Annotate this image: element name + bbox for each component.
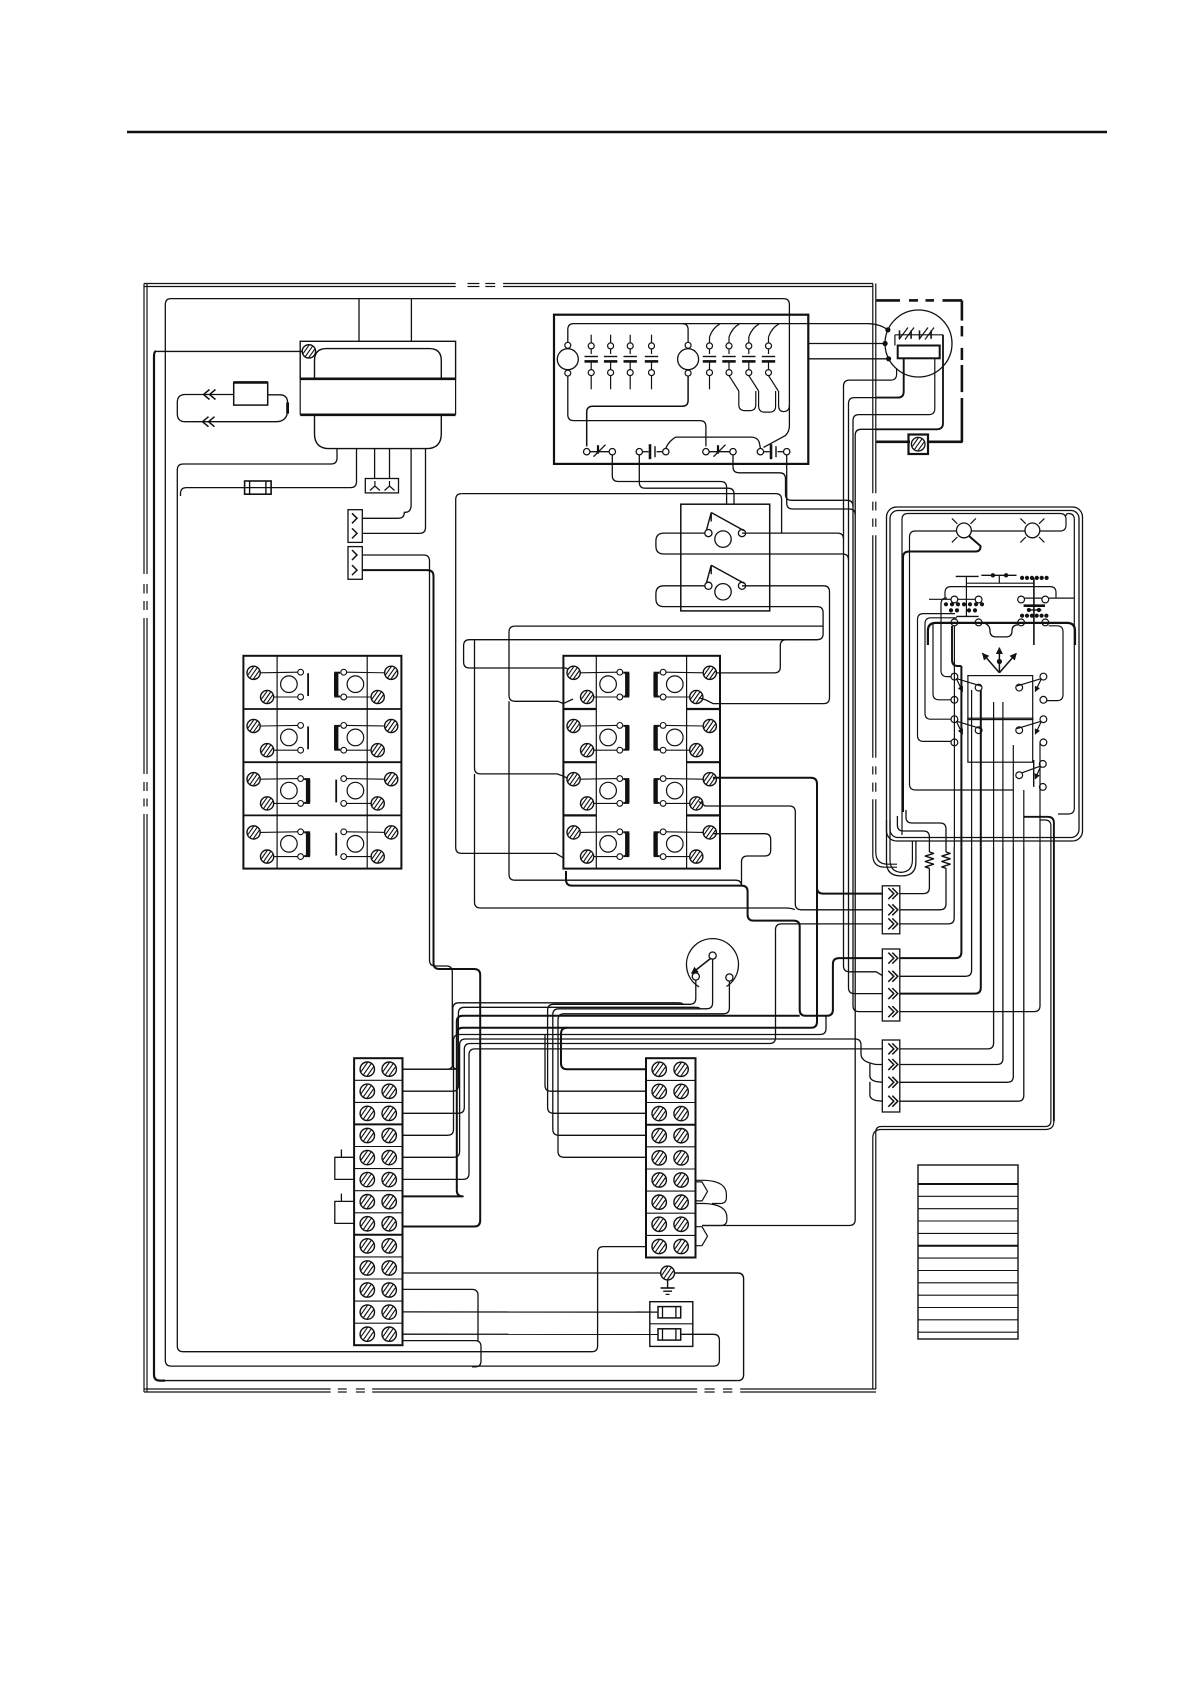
lamp L2: [1025, 523, 1040, 538]
wire relay box to compressor 3: [808, 358, 888, 360]
transformer secondary winding: [315, 415, 442, 449]
compressor feed wire 6 to overload: [876, 358, 935, 414]
rotary selector switch: [686, 939, 738, 987]
CN-C east wires rising into controller: [900, 847, 994, 1049]
connector CN2: [348, 547, 362, 580]
compressor feed wire 4: [876, 368, 897, 380]
wire CN2 pin1 down-jog to thick drop: [362, 555, 458, 1069]
connector block CN-B: [882, 949, 900, 1021]
vertical drops inside controller: [953, 626, 955, 847]
TB1 jumper bracket rows5-6: [335, 1157, 354, 1179]
cable inner line up: [1040, 820, 1051, 1121]
rotary contact R: [726, 974, 733, 981]
wire relay box to compressor 2: [808, 343, 885, 345]
relay block RB1 (left, spare): [243, 656, 401, 869]
lamp wire: [916, 530, 1061, 532]
thick bus at lower terminal row: [928, 623, 1075, 645]
transformer frame ground screw: [302, 345, 315, 358]
wire drop into relay box: [783, 299, 789, 315]
mode switch row2: [951, 716, 958, 723]
relay K2 contacts: [709, 337, 711, 343]
fuse F1: [245, 481, 272, 494]
wire left strip row6 feed long to CN-C1: [403, 1049, 883, 1180]
remote controller outer box (double): [887, 507, 1083, 841]
fuse wires left to TB1 rows 12, 13: [403, 1311, 659, 1313]
resistor R2: [942, 852, 950, 868]
wire ground to terminal strip row10: [403, 1272, 663, 1274]
controller wire to row3 area: [910, 531, 1014, 790]
wire left strip row2 feed: [403, 1007, 701, 1091]
compressor internal thermostat contacts: [895, 334, 943, 336]
cable lower run (inner line): [876, 1121, 1051, 1389]
thick supply wire from lamp L1: [903, 536, 981, 812]
resistor R1: [925, 852, 933, 868]
door switch box outline: [681, 504, 770, 611]
wire: top loop from left rail: [165, 299, 719, 1367]
controller inner top-left wire: [902, 514, 1066, 836]
TB1 row11 stub: [403, 1289, 479, 1340]
wire top horizontal: [171, 298, 783, 300]
wire CN2 pin2 drop to row8 (thick): [362, 570, 480, 1226]
legend table: [918, 1165, 1018, 1339]
DS1 terminal wires: [742, 533, 882, 976]
wire corridor x474.5 to RB2 row3 screw1 west: [475, 640, 574, 781]
TB2 row6-7-8 lug hexagons: [696, 1182, 708, 1201]
wire: secondary tap 1 down to y464: [177, 449, 646, 1352]
controller switch band: [945, 587, 1056, 598]
K2 contact common wire to compressor: [682, 324, 888, 330]
wire S2 left to door switch box: [639, 455, 734, 504]
left stack feeder wires: [941, 598, 951, 677]
resistor top leads into controller: [897, 816, 929, 852]
controller bottom-left cable bump outer: [887, 820, 916, 876]
wire loop around K0 with << arrows: [177, 395, 287, 422]
aux component box K0: [234, 382, 268, 405]
fuse box: [650, 1302, 693, 1347]
connector block CN-A: [882, 886, 900, 934]
compressor feed wire 7 to thermal line: [876, 346, 943, 430]
jog dip between lower terminals: [984, 623, 1018, 637]
compressor motor circle: [885, 310, 952, 377]
terminal strip TB2 (middle, 9 rows): [646, 1058, 696, 1257]
door switch DS2: [705, 582, 712, 589]
TB1 jumper bracket rows7-8: [335, 1201, 354, 1223]
outer enclosure border top: [144, 283, 456, 285]
wire middle-relay row1 right to DS2 chain: [713, 640, 817, 673]
compressor enclosure (thick dashed): [876, 299, 900, 302]
wire S2-S4 link: [666, 437, 761, 448]
wire: transformer screw to left rail: [156, 350, 302, 353]
wire left strip row1 feed: [447, 1003, 683, 1069]
outer enclosure border right / thermostat cable run: [872, 284, 874, 494]
wire S3 right to connector CN-B4: [733, 455, 882, 1012]
control relay box outline: [554, 315, 808, 464]
mode switch row2 outline: [968, 718, 1033, 762]
corridor verticals feeding compressor: [844, 380, 877, 539]
contact stack right (plates+dots): [1024, 604, 1045, 607]
wire RB2 row3 screw1 thick chain to CN-A1 and strip: [403, 778, 818, 1197]
mode switch block outline: [968, 676, 1033, 720]
CN-C chained jumper arcs: [861, 1054, 882, 1065]
wire left strip row5 feed: [403, 1039, 862, 1157]
right big loop wire: [1047, 626, 1063, 701]
K2 contact top S-curves: [710, 324, 721, 337]
rotary pivot: [709, 952, 716, 959]
wire top feed into S4: [764, 315, 790, 448]
connector block CN-C: [882, 1040, 900, 1112]
terminal strip TB1 (left, 13 rows): [354, 1058, 402, 1345]
wire left strip row3 feed to CN-A3: [403, 924, 883, 1113]
top horizontal rule: [127, 131, 1107, 134]
K2 contact serpentine U loops: [739, 391, 756, 411]
upper right terminal east wire: [1049, 597, 1075, 599]
wire S4 right to middle strip row8 riser: [702, 455, 855, 1226]
fuse F3: [658, 1329, 681, 1340]
rotary pin wires to middle strip rows 3-5: [548, 980, 696, 1113]
door switch DS1: [705, 530, 712, 537]
wire CN1 pin2 to transformer tap 6: [362, 449, 425, 534]
wire bottom run A: [165, 1380, 738, 1382]
fuse F3 wire right: [681, 1334, 720, 1343]
cable to remote controller (outer line): [873, 799, 897, 867]
wire DS2b to RB2 row1 screw (diag stub): [699, 698, 706, 700]
wire: secondary tap 5 to connector CN1: [362, 449, 411, 519]
wire corridor to RB2 row1 screw2: [509, 626, 823, 704]
relay K2 coil: [678, 349, 699, 370]
corridor x509 continuation to band: [509, 701, 742, 886]
transformer core band: [300, 377, 455, 380]
wire ms row2 riser: [545, 1035, 646, 1092]
big loop wire from CN area: [462, 494, 782, 533]
relay box switch S4 (NO): [757, 449, 763, 455]
contact stack left (dots): [944, 602, 948, 606]
outer enclosure border bottom: [144, 1388, 331, 1390]
TB2 jumper arc rows7-8: [696, 1204, 727, 1226]
transformer primary winding: [315, 349, 442, 379]
relay box switch S3 (NC): [703, 449, 709, 455]
rotary contact L: [692, 973, 699, 980]
DS2 terminal wires: [706, 586, 830, 704]
contact bar on K0 loop: [286, 402, 289, 413]
wire K2 bottom loop to S1: [587, 377, 688, 447]
wire K1 bottom loop to S3: [568, 377, 706, 447]
controller inner right wire: [1058, 514, 1074, 815]
compressor overload protector box: [898, 346, 940, 359]
transformer outer frame: [300, 341, 455, 379]
wire left rail A (thick): [154, 351, 165, 1380]
corridor x474.5 continuation to band: [475, 774, 795, 910]
compressor wiring: [894, 335, 896, 346]
controller temperature mechanism: [956, 575, 979, 577]
lamp L1: [957, 523, 972, 538]
outer enclosure border left: [143, 284, 145, 575]
wire RB2 row3 screw2 to CN-A2: [699, 802, 882, 910]
surge arrester twin chassis ground box: [365, 479, 398, 493]
relay K1 coil: [557, 349, 578, 370]
ground symbol: [667, 1280, 669, 1288]
thick snake: RB2 bottom to CN-B1: [566, 871, 882, 1016]
arrow fan: [982, 653, 999, 672]
wire S1 right to door switch box: [612, 455, 726, 504]
relay K1 contacts: [590, 335, 592, 343]
mode switch row3 (right only): [1039, 761, 1046, 768]
TB2 jumper arc rows6-7: [696, 1180, 727, 1203]
wire up to ground terminal: [673, 1273, 744, 1381]
connector CN1: [348, 510, 362, 543]
mode switch row1: [951, 673, 958, 680]
thick west leg of y1015.8 to r7 drop: [457, 1016, 800, 1034]
relay block RB2 (middle): [563, 656, 720, 869]
wire: secondary taps 3,4 to surge arrester: [374, 449, 376, 479]
TB1 bottom wire to neutral run: [403, 1341, 482, 1367]
relay box switch S1 (NC): [584, 449, 590, 455]
terminals lower: [951, 619, 958, 626]
thick branch to CN-A1: [817, 888, 882, 894]
compressor ground screw box: [909, 435, 929, 455]
wire: transformer primary feeds: [358, 299, 360, 342]
wire RB2 row4 screw1 staircase to thick snake: [713, 834, 771, 886]
wire K1 top to K2 top: [568, 324, 688, 343]
staircase thick wire to B1 riser: [952, 626, 961, 666]
CN-A east wires to resistors: [900, 868, 930, 893]
CN-B east wires rising into controller: [900, 847, 962, 958]
fuse F2: [658, 1307, 681, 1318]
compressor feed wire 5 to overload: [876, 358, 904, 397]
wire: secondary tap 2 through fuse: [181, 449, 357, 496]
thick drop to middle strip row1: [561, 1028, 646, 1070]
thick wire row3 to cable: [1024, 817, 1054, 1121]
ground terminal screw: [661, 1266, 675, 1280]
relay box switch S2 (NO): [636, 449, 642, 455]
wire left strip row4 feed: [403, 1016, 827, 1136]
